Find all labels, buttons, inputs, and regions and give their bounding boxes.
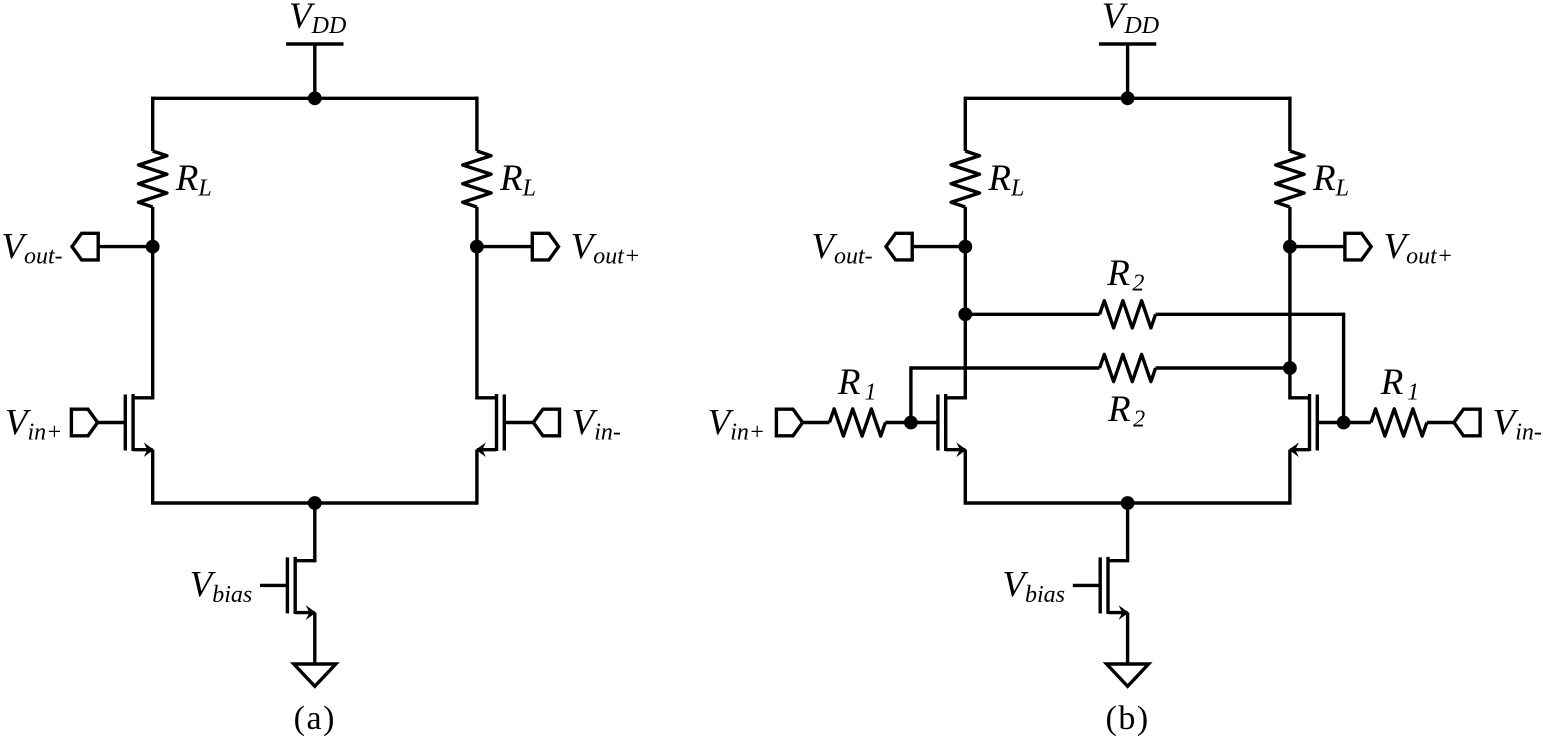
wire tail drain (b) (1126, 503, 1129, 562)
wire Vbias gate lead (b) (1073, 584, 1100, 587)
wire R2 top corner drop to right gate (b) (1342, 313, 1345, 423)
junction tail node (b) (1121, 496, 1135, 510)
wire tail source drop (b) (1126, 613, 1129, 664)
svg-text:R2: R2 (1107, 389, 1145, 432)
wire R2 mid left segment (b) (911, 366, 1100, 369)
transistor M3a drain lead (295, 559, 315, 562)
svg-text:(a): (a) (294, 700, 336, 737)
transistor M2a channel bar (495, 394, 498, 451)
wire R2 top left segment (b) (965, 313, 1099, 316)
transistor M1b channel bar (944, 394, 947, 451)
terminal Vin+ (b) (776, 409, 802, 436)
resistor R1 left (b) (829, 409, 885, 436)
resistor R2 top (b) (1100, 301, 1156, 328)
ground symbol (b) (1107, 664, 1149, 686)
junction Vout+ node (a) (470, 240, 484, 254)
transistor M2b gate bar (1316, 395, 1319, 451)
transistor M2a gate bar (503, 395, 506, 451)
svg-text:Vin+: Vin+ (5, 402, 62, 445)
svg-text:RL: RL (1312, 158, 1349, 201)
transistor M1b drain lead (946, 396, 966, 399)
transistor M1a channel bar (131, 394, 134, 451)
terminal Vin+ (a) (71, 409, 97, 436)
wire R2 mid riser from left gate (b) (909, 366, 912, 422)
wire left branch upper (a) (151, 97, 154, 151)
svg-text:R2: R2 (1106, 253, 1144, 296)
svg-text:RL: RL (175, 158, 212, 201)
svg-text:R1: R1 (837, 362, 877, 405)
junction left gate node (b) (904, 416, 918, 430)
wire right gate to R1 (b) (1344, 421, 1371, 424)
terminal Vout+ (a) (532, 233, 558, 260)
wire Vout- lead (b) (912, 245, 965, 248)
junction tail node (a) (308, 496, 322, 510)
power symbol VDD (a) bar (286, 42, 343, 45)
wire bottom rail (b) (965, 501, 1290, 504)
wire VDD stem (a) (313, 44, 316, 98)
svg-text:RL: RL (987, 158, 1024, 201)
junction R2 mid at right branch (b) (1283, 361, 1297, 375)
transistor M2b source lead (1290, 448, 1310, 451)
resistor RL left (a) (139, 151, 167, 207)
transistor M2a source arrow (476, 442, 486, 457)
resistor RL right (a) (463, 151, 491, 207)
terminal Vout- (b) (886, 233, 912, 260)
svg-text:Vin+: Vin+ (708, 402, 765, 445)
transistor M1a gate bar (124, 395, 127, 451)
transistor M3b source arrow (1119, 605, 1129, 620)
transistor M2b source arrow (1289, 442, 1299, 457)
wire right branch to M2 drain (b) (1288, 247, 1291, 400)
wire right branch to Vout+ node (a) (475, 207, 478, 247)
wire VDD stem (b) (1126, 44, 1129, 98)
transistor M2a drain lead (477, 396, 497, 399)
svg-text:Vbias: Vbias (190, 565, 253, 608)
junction Vout- node (a) (146, 240, 160, 254)
wire M1 source drop (b) (964, 450, 967, 505)
power symbol VDD (b) bar (1099, 42, 1156, 45)
terminal Vin- (b) (1454, 409, 1480, 436)
wire tail source drop (a) (313, 613, 316, 664)
wire M1 source drop (a) (151, 450, 154, 505)
wire Vin+ to R1 left (b) (803, 421, 830, 424)
ground symbol (a) (294, 664, 336, 686)
transistor M1a source arrow (144, 442, 154, 457)
transistor M3b drain lead (1108, 559, 1128, 562)
transistor M2b drain lead (1290, 396, 1310, 399)
wire Vout- lead (a) (98, 245, 153, 248)
transistor M1a drain lead (133, 396, 153, 399)
svg-text:Vout-: Vout- (1, 226, 62, 269)
transistor M3b source lead (1108, 611, 1128, 614)
svg-text:(b): (b) (1106, 700, 1150, 737)
svg-text:Vin-: Vin- (572, 402, 621, 445)
junction R2 top at left branch (b) (958, 307, 972, 321)
junction Vout+ node (b) (1283, 240, 1297, 254)
junction Vout- node (b) (958, 240, 972, 254)
transistor M2a source lead (477, 448, 497, 451)
wire right gate lead (b) (1317, 421, 1343, 424)
wire right branch to M2 drain (a) (475, 247, 478, 400)
wire Vout+ lead (a) (477, 245, 532, 248)
transistor M3b channel bar (1106, 557, 1109, 614)
svg-text:RL: RL (499, 158, 536, 201)
svg-text:Vbias: Vbias (1002, 565, 1065, 608)
wire R1 right to Vin- (b) (1427, 421, 1454, 424)
transistor M1b source lead (946, 448, 966, 451)
wire left branch upper (b) (964, 97, 967, 151)
transistor M1a source lead (133, 448, 153, 451)
svg-text:Vout-: Vout- (811, 226, 872, 269)
wire Vin+ gate lead (a) (98, 421, 126, 424)
resistor R2 middle (b) (1100, 354, 1156, 381)
wire R2 mid right segment (b) (1156, 366, 1290, 369)
wire top rail (b) (965, 97, 1290, 100)
transistor M3a gate bar (286, 557, 289, 613)
junction top rail (b) (1121, 91, 1135, 105)
wire Vin- gate lead (a) (504, 421, 533, 424)
resistor RL left (b) (951, 151, 979, 207)
wire left gate lead (b) (911, 421, 938, 424)
wire M2 source drop (b) (1288, 450, 1291, 505)
terminal Vout+ (b) (1345, 233, 1371, 260)
wire right branch to Vout+ node (b) (1288, 207, 1291, 247)
svg-text:VDD: VDD (1102, 0, 1159, 39)
terminal Vin- (a) (533, 409, 559, 436)
wire Vout+ lead (b) (1290, 245, 1345, 248)
svg-text:VDD: VDD (289, 0, 346, 39)
transistor M3a channel bar (294, 557, 297, 614)
wire left branch to Vout- node (b) (964, 207, 967, 247)
wire R2 top right segment (b) (1156, 313, 1344, 316)
svg-text:Vout+: Vout+ (1384, 226, 1453, 269)
transistor M1b gate bar (936, 395, 939, 451)
junction right gate node (b) (1337, 416, 1351, 430)
wire tail drain (a) (313, 503, 316, 562)
svg-text:R1: R1 (1380, 362, 1420, 405)
resistor R1 right (b) (1371, 409, 1427, 436)
wire left branch to M1 drain (a) (151, 247, 154, 400)
transistor M1b source arrow (956, 442, 966, 457)
transistor M3a source arrow (306, 605, 316, 620)
transistor M3b gate bar (1098, 557, 1101, 613)
svg-text:Vout+: Vout+ (571, 226, 640, 269)
wire M2 source drop (a) (475, 450, 478, 505)
wire left branch to Vout- node (a) (151, 207, 154, 247)
wire right branch upper (b) (1288, 97, 1291, 151)
svg-text:Vin-: Vin- (1493, 402, 1542, 445)
wire right branch upper (a) (475, 97, 478, 151)
terminal Vout- (a) (72, 233, 98, 260)
wire bottom rail (a) (153, 501, 477, 504)
wire R1 left to gate node (b) (885, 421, 911, 424)
wire left branch to M1 drain (b) (964, 247, 967, 400)
resistor RL right (b) (1276, 151, 1304, 207)
transistor M2b channel bar (1308, 394, 1311, 451)
transistor M3a source lead (295, 611, 315, 614)
junction top rail (a) (308, 91, 322, 105)
wire Vbias gate lead (a) (260, 584, 287, 587)
wire top rail (a) (153, 97, 477, 100)
